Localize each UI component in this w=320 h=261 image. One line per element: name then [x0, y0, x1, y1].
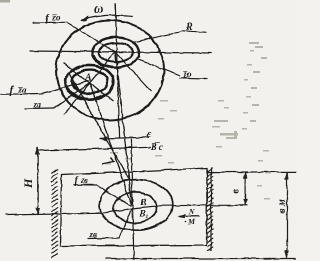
dot before M [184, 220, 186, 222]
underline f zB [73, 183, 96, 185]
svg-text:z̅o: z̅o [182, 69, 192, 79]
line A centre to B centre [89, 82, 131, 205]
svg-text:B₁: B₁ [138, 209, 149, 219]
omega rotation arc arrow [80, 15, 132, 20]
dimension b line [244, 172, 246, 206]
workpiece rectangle [60, 168, 207, 246]
leader of zo [136, 58, 180, 75]
underline zB [87, 237, 119, 240]
underline zo [180, 77, 207, 80]
B horizontal axis [5, 205, 247, 214]
left clamp hatching [51, 169, 57, 258]
svg-text:zа: zа [32, 99, 42, 109]
leader of R [134, 31, 180, 41]
svg-text:ω: ω [94, 1, 103, 16]
underline f z1 [0, 92, 41, 95]
svg-text:zв: zв [88, 229, 97, 239]
hub horizontal centre line [29, 51, 211, 53]
scan noise specks [105, 42, 271, 200]
svg-text:A: A [84, 72, 92, 83]
Vc line / H extension [37, 147, 151, 150]
big circle R (ring gear) [56, 20, 164, 120]
hub inner circle [98, 42, 132, 61]
dimension H line [36, 147, 38, 214]
ink blotches on gear A [66, 88, 83, 98]
svg-text:М: М [187, 217, 196, 226]
svg-text:Н: Н [21, 178, 35, 189]
svg-text:R: R [185, 22, 193, 33]
dimension Bm extension bottom [105, 257, 295, 259]
line hub centre to B centre [115, 52, 132, 205]
hub outer circle z0 [92, 37, 139, 67]
line hub to A extended [63, 52, 115, 114]
underline z1 [24, 107, 53, 110]
leader of z1 [53, 83, 89, 108]
hook arrow mark [101, 158, 114, 164]
underline f zo [32, 21, 66, 23]
leader of f zo [66, 22, 115, 52]
svg-text:ε: ε [147, 129, 152, 140]
leader of zB [119, 208, 132, 238]
B vertical axis [130, 138, 133, 260]
svg-text:в: в [229, 189, 241, 194]
svg-text:B: B [139, 198, 146, 208]
ink blotch on hub [93, 55, 112, 67]
right clamp hatching [207, 167, 213, 251]
edge smudge [0, 0, 10, 3]
wheel B outer circle [99, 179, 172, 230]
dimension b and Bm shared extension line [207, 170, 296, 172]
N/M torque arrow [178, 215, 186, 217]
svg-text:В̅ с: В̅ с [150, 142, 163, 152]
svg-text:z̅o: z̅o [51, 13, 61, 23]
cross line through A [63, 63, 113, 101]
line L1 from A edge to B rim [68, 72, 130, 181]
svg-text:в м: в м [277, 199, 288, 213]
leader of f z1 [41, 81, 88, 94]
svg-text:zв: zв [80, 176, 88, 185]
leader of f zB [96, 185, 131, 206]
wheel B inner circle [113, 192, 156, 223]
gear A inner circle [71, 70, 107, 94]
underline R [180, 31, 207, 33]
N/M fraction bar [185, 214, 199, 216]
epsilon line with arrow [99, 137, 149, 138]
gear A outer circle [64, 65, 112, 99]
top vertical axis [115, 3, 119, 138]
dimension Bm line [286, 172, 288, 258]
hub diagonal line lower right [115, 52, 151, 91]
svg-text:z̅а: z̅а [17, 85, 27, 95]
right clamp line [210, 167, 212, 251]
